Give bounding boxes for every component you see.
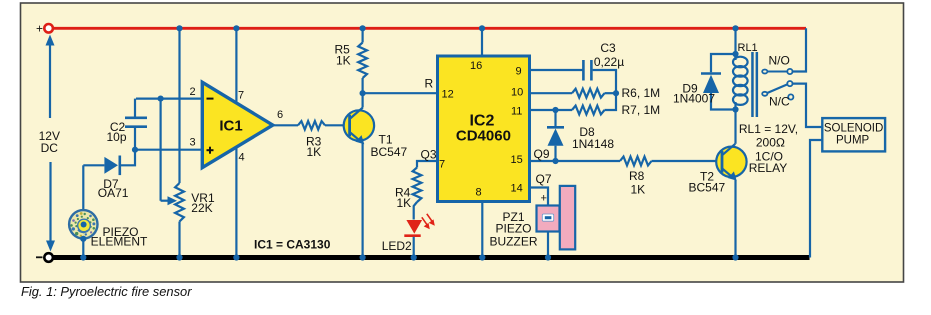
svg-text:+: + xyxy=(541,192,547,204)
wire T2 emitter to ground xyxy=(734,180,736,258)
ground node dot T2 xyxy=(732,254,738,260)
rail node dot pin7 xyxy=(233,25,239,31)
node dot R5/T1/pin12 xyxy=(360,90,366,96)
ground node dot piezo xyxy=(80,254,86,260)
svg-text:1N4148: 1N4148 xyxy=(572,137,614,151)
wire node R to IC2 pin12 xyxy=(363,77,437,94)
node dot coil bottom / D9 xyxy=(732,106,738,112)
wire pin2 node xyxy=(136,97,202,99)
relay switch N/O contact xyxy=(762,54,792,75)
svg-text:1K: 1K xyxy=(397,196,412,210)
svg-text:Fig. 1: Pyroelectric fire sens: Fig. 1: Pyroelectric fire sensor xyxy=(21,284,192,299)
solenoid pump box xyxy=(822,118,885,151)
svg-text:10p: 10p xyxy=(106,130,126,144)
potentiometer VR1 22K xyxy=(161,99,215,258)
wire rail to VR1 xyxy=(178,28,180,183)
- terminal xyxy=(36,253,53,262)
svg-text:0,22µ: 0,22µ xyxy=(594,55,624,69)
+12V rail wire xyxy=(53,27,806,30)
svg-text:14: 14 xyxy=(511,183,523,195)
svg-text:BC547: BC547 xyxy=(689,181,726,195)
wire IC2 pin7 Q3 xyxy=(417,148,438,168)
node dot C2/D7/pin3 xyxy=(132,147,138,153)
svg-text:1K: 1K xyxy=(336,54,351,68)
svg-text:RELAY: RELAY xyxy=(749,161,787,175)
svg-text:N/O: N/O xyxy=(769,54,790,68)
svg-text:R: R xyxy=(425,77,434,91)
svg-text:1K: 1K xyxy=(307,145,322,159)
wire T1 emitter to ground xyxy=(362,144,364,258)
wire N/O to rail xyxy=(793,28,807,71)
rail node dot pin16 xyxy=(479,25,485,31)
node dot coil top / D9 xyxy=(732,51,738,57)
capacitor C3 0.22u xyxy=(583,41,624,93)
svg-text:IC1: IC1 xyxy=(219,117,242,134)
svg-text:1N4007: 1N4007 xyxy=(673,92,715,106)
rail node dot R5 xyxy=(360,25,366,31)
wire IC1 output pin6 xyxy=(273,124,298,126)
svg-text:7: 7 xyxy=(238,90,244,102)
wire IC2 pin9 xyxy=(530,69,584,71)
ground node dot VR1 xyxy=(176,254,182,260)
+ terminal xyxy=(36,22,53,36)
wire T1 collector xyxy=(362,93,364,107)
transistor T1 BC547 xyxy=(344,108,408,160)
LED2 xyxy=(382,214,435,258)
wire T2 collector to coil xyxy=(734,110,736,144)
piezo buzzer PZ1 xyxy=(490,186,576,258)
ground rail wire xyxy=(53,255,810,260)
relay core bars xyxy=(751,52,758,117)
node dot C3/R6 xyxy=(613,90,619,96)
wire rail to relay coil xyxy=(734,28,736,58)
ground node dot pin8 xyxy=(479,254,485,260)
svg-text:11: 11 xyxy=(511,106,522,118)
svg-text:7: 7 xyxy=(439,159,445,171)
svg-text:OA71: OA71 xyxy=(98,186,129,200)
rail node dot VR1 xyxy=(176,25,182,31)
svg-text:12: 12 xyxy=(442,88,454,100)
svg-text:ELEMENT: ELEMENT xyxy=(91,235,148,249)
relay value label xyxy=(739,122,798,175)
wire IC2 pin16 to rail xyxy=(481,28,483,56)
ground node dot buzzer xyxy=(545,254,551,260)
svg-text:Q3: Q3 xyxy=(421,148,437,162)
svg-text:R8: R8 xyxy=(629,169,645,183)
svg-text:IC1 = CA3130: IC1 = CA3130 xyxy=(254,238,331,252)
svg-text:BUZZER: BUZZER xyxy=(490,234,538,248)
transistor T2 BC547 xyxy=(689,144,747,195)
resistor R8 1K xyxy=(620,157,721,197)
svg-text:3: 3 xyxy=(190,137,196,149)
svg-text:200Ω: 200Ω xyxy=(756,136,785,150)
wire pump to ground xyxy=(810,140,822,258)
svg-text:SOLENOID: SOLENOID xyxy=(824,123,883,135)
svg-text:N/C: N/C xyxy=(769,95,790,109)
svg-text:+: + xyxy=(36,22,43,36)
resistor R3 1K xyxy=(298,121,348,159)
svg-text:9: 9 xyxy=(516,66,522,78)
svg-text:CD4060: CD4060 xyxy=(456,127,511,144)
wire IC1 pin7 to rail xyxy=(235,28,237,103)
rail node dot relay xyxy=(732,25,738,31)
svg-text:R6, 1M: R6, 1M xyxy=(622,86,661,100)
svg-text:15: 15 xyxy=(511,154,523,166)
svg-text:4: 4 xyxy=(239,152,245,164)
relay RL1 coil xyxy=(733,42,758,110)
resistor R5 1K xyxy=(335,28,368,93)
ground node dot T1 xyxy=(360,254,366,260)
IC1 type note xyxy=(254,238,331,252)
relay switch N/C contact xyxy=(769,94,793,108)
wire pin3 node xyxy=(135,149,202,151)
wire IC2 pin8 to ground xyxy=(481,202,483,258)
ground node dot pin4 xyxy=(233,254,239,260)
node dot D8/pin15 xyxy=(552,158,558,164)
diode D8 1N4148 xyxy=(547,110,614,161)
relay switch armature xyxy=(762,81,792,96)
svg-text:RL1: RL1 xyxy=(738,42,758,54)
svg-text:16: 16 xyxy=(470,60,482,72)
resistor R4 1K xyxy=(395,168,421,220)
svg-text:Q7: Q7 xyxy=(536,172,552,186)
node dot pin2/wiper xyxy=(158,96,164,102)
svg-text:2: 2 xyxy=(190,86,196,98)
svg-text:DC: DC xyxy=(41,141,59,155)
svg-text:R7, 1M: R7, 1M xyxy=(622,103,661,117)
diode D7 OA71 xyxy=(83,150,135,200)
IC2 CD4060 xyxy=(438,56,530,202)
svg-text:1K: 1K xyxy=(631,183,646,197)
diode D9 1N4007 xyxy=(673,54,736,110)
12V DC source arrows xyxy=(39,35,60,252)
resistor R7 1M xyxy=(530,93,661,117)
wire IC2 pin14 Q7 xyxy=(530,172,552,206)
svg-text:RL1 = 12V,: RL1 = 12V, xyxy=(739,122,798,136)
caption xyxy=(21,284,192,299)
svg-text:Q9: Q9 xyxy=(534,147,550,161)
ground node dot LED2 xyxy=(411,254,417,260)
svg-text:PUMP: PUMP xyxy=(836,134,870,146)
svg-text:LED2: LED2 xyxy=(382,239,412,253)
op-amp IC1 xyxy=(190,82,284,167)
resistor R6 1M xyxy=(530,86,661,100)
piezo element PZ xyxy=(69,165,148,257)
svg-text:BC547: BC547 xyxy=(371,145,408,159)
svg-text:10: 10 xyxy=(511,87,523,99)
svg-text:8: 8 xyxy=(476,187,482,199)
svg-text:C3: C3 xyxy=(600,41,616,55)
svg-text:22K: 22K xyxy=(191,201,212,215)
svg-text:6: 6 xyxy=(277,109,283,121)
wire IC2 pin15 Q9 xyxy=(530,147,621,161)
node dot D8/pin11 xyxy=(552,107,558,113)
wire IC1 pin4 to ground xyxy=(235,147,237,258)
wire common to pump xyxy=(793,84,823,127)
capacitor C2 10p xyxy=(106,99,147,150)
